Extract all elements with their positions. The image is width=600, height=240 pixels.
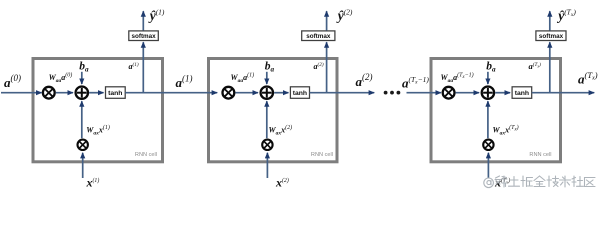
wire add to tanh cell 2 [274, 92, 288, 94]
tanh box cell 2 [290, 87, 309, 99]
wire cell2 output to ellipsis [310, 92, 375, 94]
wire Wax multiply up into add cell 3 [487, 101, 489, 138]
wire cell1 tanh output into cell 2 [125, 92, 217, 94]
wire x input into Wax multiply cell 1 [82, 153, 84, 178]
wire softmax to y-hat cell 2 [326, 11, 328, 30]
RNN cell 3 box [431, 59, 561, 162]
wire softmax to y-hat cell 3 [549, 11, 551, 30]
RNN cell 2 box [209, 59, 338, 162]
softmax box cell 2 [302, 31, 335, 41]
wire tanh output to softmax branch cell 3 [549, 42, 551, 92]
svg-text:softmax: softmax [132, 33, 157, 40]
wire multiply to add cell 2 [235, 92, 258, 94]
multiply node (Wax) cell 1 [78, 140, 88, 150]
tanh box cell 3 [512, 87, 532, 99]
tanh box cell 1 [106, 87, 126, 99]
wire a^(0) into cell 1 [1, 92, 42, 94]
svg-text:RNN cell: RNN cell [311, 152, 333, 158]
wire multiply to add cell 3 [456, 92, 480, 94]
wire bias into add cell 2 [266, 72, 268, 84]
add node cell 2 [261, 87, 273, 99]
svg-text:RNN cell: RNN cell [529, 152, 551, 158]
add node cell 3 [482, 87, 494, 99]
wire Wax multiply up into add cell 1 [81, 101, 83, 138]
softmax box cell 1 [129, 31, 159, 41]
multiply node (Wax) cell 3 [483, 140, 493, 150]
wire multiply to add cell 1 [56, 92, 73, 94]
RNN cell 1 box [33, 59, 163, 162]
wire x input into Wax multiply cell 2 [266, 153, 268, 178]
multiply node (Wax) cell 2 [262, 140, 272, 150]
wire tanh output to softmax branch cell 2 [326, 42, 328, 92]
wire add to tanh cell 3 [495, 92, 510, 94]
multiply node (Waa) cell 1 [43, 87, 55, 99]
svg-text:tanh: tanh [515, 90, 529, 97]
wire x input into Wax multiply cell 3 [487, 153, 489, 178]
softmax box cell 3 [536, 31, 566, 41]
wire bias into add cell 3 [487, 72, 489, 84]
wire softmax to y-hat cell 1 [142, 11, 144, 30]
multiply node (Waa) cell 3 [443, 87, 455, 99]
wire cell3 tanh output out [532, 92, 595, 94]
wire ellipsis into cell 3 [407, 92, 441, 94]
svg-text:RNN cell: RNN cell [135, 152, 157, 158]
wire Wax multiply up into add cell 2 [266, 101, 268, 138]
svg-text:softmax: softmax [306, 33, 331, 40]
svg-text:tanh: tanh [293, 90, 307, 97]
add node cell 1 [76, 87, 88, 99]
multiply node (Waa) cell 2 [223, 87, 235, 99]
wire tanh output to softmax branch cell 1 [142, 42, 144, 92]
svg-text:softmax: softmax [539, 33, 564, 40]
wire add to tanh cell 1 [89, 92, 103, 94]
ellipsis dots [384, 91, 401, 95]
svg-text:tanh: tanh [108, 90, 122, 97]
wire bias into add cell 1 [81, 72, 83, 84]
watermark @juejin [484, 176, 595, 188]
